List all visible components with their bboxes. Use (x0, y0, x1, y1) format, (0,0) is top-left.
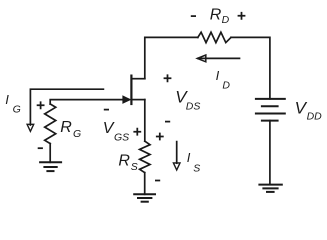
svg-text:R: R (210, 6, 222, 23)
svg-text:I: I (216, 68, 220, 83)
svg-text:S: S (193, 162, 200, 174)
svg-text:DS: DS (186, 100, 201, 112)
svg-text:DD: DD (307, 111, 323, 123)
svg-text:I: I (5, 92, 9, 107)
svg-text:V: V (103, 120, 115, 137)
svg-text:I: I (187, 150, 191, 165)
svg-text:R: R (118, 153, 130, 170)
svg-text:GS: GS (114, 131, 129, 143)
svg-text:R: R (60, 119, 72, 136)
svg-text:D: D (222, 14, 230, 26)
svg-text:G: G (73, 128, 81, 140)
svg-text:D: D (222, 79, 230, 91)
svg-text:G: G (13, 103, 21, 115)
svg-text:S: S (131, 161, 138, 173)
